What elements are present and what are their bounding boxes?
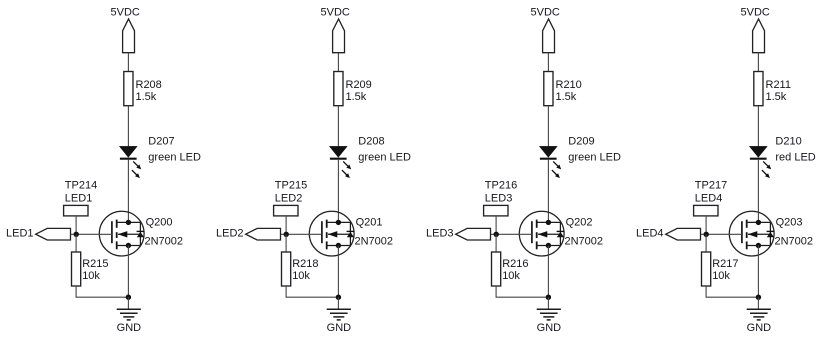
value label R210 1.5k [556, 79, 582, 103]
wire [547, 160, 549, 223]
label D208 green LED [358, 136, 411, 164]
svg-text:R217: R217 [712, 258, 738, 270]
wire [495, 234, 497, 252]
test point TP214 [64, 205, 88, 234]
label net GND [327, 322, 352, 334]
wire [547, 53, 549, 72]
svg-text:10k: 10k [712, 270, 730, 282]
junction drain Q203 [756, 220, 761, 225]
ground [747, 297, 771, 320]
input port LED4 [666, 228, 701, 240]
junction source Q200 [126, 243, 131, 248]
label D207 green LED [148, 136, 201, 164]
svg-text:D209: D209 [568, 136, 594, 148]
value label R211 1.5k [766, 79, 791, 103]
LED D210 [750, 146, 772, 178]
svg-text:Q201: Q201 [356, 216, 383, 228]
label Q203 2N7002 [775, 216, 814, 247]
wire [337, 160, 339, 223]
power symbol 5VDC [333, 19, 345, 53]
junction drain Q202 [546, 220, 551, 225]
input port LED1 [36, 228, 71, 240]
label Q200 2N7002 [145, 216, 184, 247]
svg-text:green LED: green LED [568, 151, 621, 163]
resistor R218 [282, 252, 291, 286]
wire [496, 286, 548, 297]
test point TP215 [274, 205, 298, 234]
net 5VDC [741, 7, 770, 19]
junction source Q202 [546, 243, 551, 248]
ground [327, 297, 351, 320]
svg-text:R215: R215 [82, 258, 108, 270]
wire [76, 286, 128, 297]
svg-text:D207: D207 [148, 136, 174, 148]
LED D208 [330, 146, 352, 178]
label Q201 2N7002 [355, 216, 394, 247]
value label R208 1.5k [136, 79, 162, 103]
value label R216 10k [502, 258, 528, 282]
label TP214 LED1 [65, 179, 97, 204]
junction gate node [74, 232, 79, 237]
svg-text:LED1: LED1 [6, 228, 34, 240]
wire [285, 234, 287, 252]
resistor R217 [702, 252, 711, 286]
svg-text:R216: R216 [502, 258, 528, 270]
transistor Q202 [519, 211, 564, 256]
wire [706, 286, 758, 297]
test point TP217 [694, 205, 718, 234]
transistor Q200 [99, 211, 144, 256]
svg-text:5VDC: 5VDC [111, 7, 140, 19]
label D210 red LED [775, 136, 815, 164]
wire [757, 160, 759, 223]
wire [75, 234, 77, 252]
test point TP216 [484, 205, 508, 234]
svg-text:10k: 10k [82, 270, 100, 282]
wire [337, 106, 339, 147]
resistor R209 [334, 72, 343, 106]
transistor Q201 [309, 211, 354, 256]
svg-text:GND: GND [117, 322, 142, 334]
svg-text:Q203: Q203 [776, 216, 803, 228]
ground [537, 297, 561, 320]
transistor Q203 [729, 211, 774, 256]
junction gate node [494, 232, 499, 237]
junction ground node [336, 295, 341, 300]
svg-text:2N7002: 2N7002 [775, 236, 814, 248]
svg-text:D210: D210 [775, 136, 801, 148]
net 5VDC [531, 7, 560, 19]
svg-text:green LED: green LED [358, 151, 411, 163]
svg-text:1.5k: 1.5k [766, 91, 787, 103]
LED D207 [120, 146, 142, 178]
svg-text:Q202: Q202 [566, 216, 593, 228]
input port LED2 [246, 228, 281, 240]
junction source Q201 [336, 243, 341, 248]
junction drain Q201 [336, 220, 341, 225]
wire [757, 53, 759, 72]
wire [127, 106, 129, 147]
svg-text:GND: GND [327, 322, 352, 334]
junction ground node [756, 295, 761, 300]
svg-text:10k: 10k [502, 270, 520, 282]
svg-text:R208: R208 [136, 79, 162, 91]
junction drain Q200 [126, 220, 131, 225]
junction source Q203 [756, 243, 761, 248]
value label R217 10k [712, 258, 738, 282]
wire [491, 233, 532, 235]
svg-text:Q200: Q200 [146, 216, 173, 228]
label net LED2 [216, 228, 244, 240]
svg-text:5VDC: 5VDC [531, 7, 560, 19]
svg-text:green LED: green LED [148, 151, 201, 163]
label net LED3 [426, 228, 454, 240]
junction gate node [704, 232, 709, 237]
wire [757, 106, 759, 147]
label TP215 LED2 [275, 179, 307, 204]
input port LED3 [456, 228, 491, 240]
svg-text:LED2: LED2 [216, 228, 244, 240]
svg-text:LED3: LED3 [485, 193, 513, 205]
wire [705, 234, 707, 252]
power symbol 5VDC [123, 19, 135, 53]
svg-text:TP215: TP215 [275, 179, 307, 191]
value label R218 10k [292, 258, 318, 282]
svg-text:red LED: red LED [775, 151, 815, 163]
wire [337, 53, 339, 72]
svg-text:LED2: LED2 [275, 193, 303, 205]
svg-text:1.5k: 1.5k [346, 91, 367, 103]
junction ground node [126, 295, 131, 300]
svg-text:2N7002: 2N7002 [565, 236, 604, 248]
junction gate node [284, 232, 289, 237]
power symbol 5VDC [753, 19, 765, 53]
svg-text:LED4: LED4 [636, 228, 664, 240]
svg-text:LED3: LED3 [426, 228, 454, 240]
svg-text:GND: GND [747, 322, 772, 334]
wire [701, 233, 742, 235]
svg-text:LED4: LED4 [695, 193, 723, 205]
svg-text:TP217: TP217 [695, 179, 727, 191]
junction ground node [546, 295, 551, 300]
wire [547, 246, 549, 298]
label net LED4 [636, 228, 664, 240]
resistor R211 [754, 72, 763, 106]
svg-text:5VDC: 5VDC [321, 7, 350, 19]
ground [117, 297, 141, 320]
wire [286, 286, 338, 297]
resistor R215 [72, 252, 81, 286]
label net LED1 [6, 228, 34, 240]
svg-text:R210: R210 [556, 79, 582, 91]
label net GND [747, 322, 772, 334]
svg-text:R218: R218 [292, 258, 318, 270]
resistor R210 [544, 72, 553, 106]
svg-text:5VDC: 5VDC [741, 7, 770, 19]
wire [337, 246, 339, 298]
net 5VDC [111, 7, 140, 19]
svg-text:GND: GND [537, 322, 562, 334]
wire [757, 246, 759, 298]
label Q202 2N7002 [565, 216, 604, 247]
value label R215 10k [82, 258, 108, 282]
label TP216 LED3 [485, 179, 517, 204]
power symbol 5VDC [543, 19, 555, 53]
svg-text:LED1: LED1 [65, 193, 93, 205]
svg-text:TP216: TP216 [485, 179, 517, 191]
label D209 green LED [568, 136, 621, 164]
wire [127, 246, 129, 298]
svg-text:1.5k: 1.5k [556, 91, 577, 103]
resistor R216 [492, 252, 501, 286]
resistor R208 [124, 72, 133, 106]
label net GND [117, 322, 142, 334]
wire [547, 106, 549, 147]
wire [127, 160, 129, 223]
svg-text:R209: R209 [346, 79, 372, 91]
value label R209 1.5k [346, 79, 372, 103]
svg-text:R211: R211 [766, 79, 791, 91]
wire [71, 233, 112, 235]
label net GND [537, 322, 562, 334]
svg-text:2N7002: 2N7002 [145, 236, 184, 248]
svg-text:TP214: TP214 [65, 179, 97, 191]
LED D209 [540, 146, 562, 178]
svg-text:10k: 10k [292, 270, 310, 282]
svg-text:D208: D208 [358, 136, 384, 148]
label TP217 LED4 [695, 179, 727, 204]
svg-text:2N7002: 2N7002 [355, 236, 394, 248]
net 5VDC [321, 7, 350, 19]
svg-text:1.5k: 1.5k [136, 91, 157, 103]
wire [281, 233, 322, 235]
wire [127, 53, 129, 72]
